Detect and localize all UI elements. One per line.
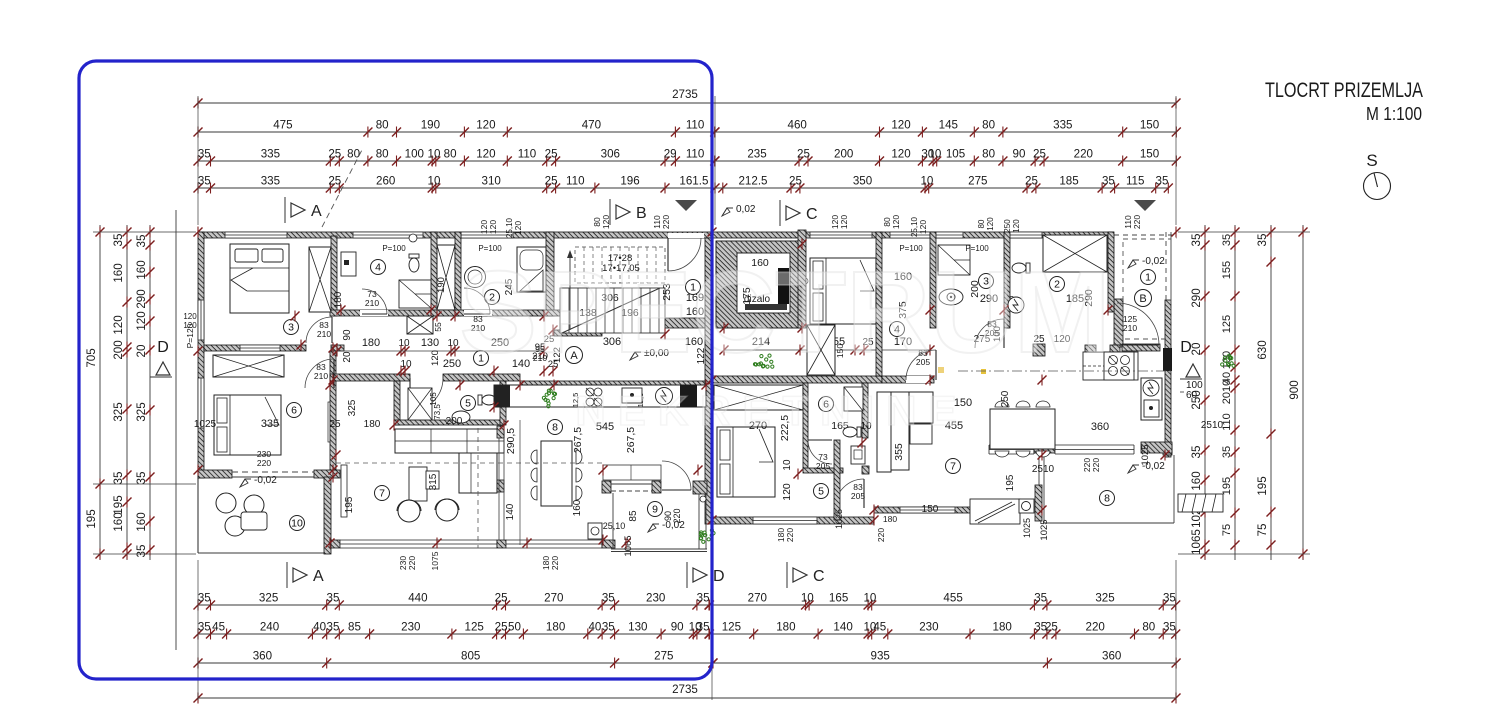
- porch9 room outline: [612, 493, 614, 549]
- section marker B top: [609, 199, 611, 225]
- svg-text:35: 35: [327, 621, 340, 634]
- svg-text:80: 80: [347, 148, 360, 161]
- party wall between units: [705, 238, 712, 524]
- wall shaft right: [455, 232, 461, 316]
- bath6R circle: [819, 397, 834, 412]
- svg-text:120: 120: [986, 217, 995, 231]
- svg-text:90: 90: [671, 621, 684, 634]
- svg-text:180: 180: [333, 291, 344, 308]
- svg-text:2735: 2735: [672, 88, 698, 101]
- svg-text:130: 130: [628, 621, 647, 634]
- svg-text:196: 196: [620, 175, 639, 188]
- svg-text:355: 355: [893, 443, 905, 461]
- wall stair bottom: [554, 330, 602, 336]
- svg-text:8: 8: [1104, 493, 1110, 505]
- dimension row C left: [198, 160, 715, 162]
- outer wall right: [1165, 300, 1171, 457]
- stair arrow: [569, 252, 571, 330]
- svg-text:250: 250: [443, 358, 461, 370]
- svg-text:120: 120: [601, 215, 611, 229]
- svg-text:325: 325: [259, 592, 278, 605]
- svg-text:25: 25: [1045, 621, 1058, 634]
- svg-text:220: 220: [876, 528, 886, 542]
- wall bed6/living vertical: [330, 351, 336, 470]
- room3 circle: [284, 320, 299, 335]
- svg-text:80: 80: [982, 119, 995, 132]
- wall room1R left: [1108, 232, 1114, 312]
- svg-text:325: 325: [135, 402, 148, 421]
- svg-text:B: B: [636, 205, 647, 222]
- svg-text:35: 35: [112, 234, 125, 247]
- elevator car: [778, 268, 789, 304]
- niche wall bed6 right: [328, 402, 333, 442]
- bottom dim row E left: [198, 604, 709, 606]
- svg-text:190: 190: [421, 119, 440, 132]
- svg-text:25,10: 25,10: [603, 521, 626, 531]
- svg-text:D: D: [1180, 339, 1192, 356]
- svg-text:1025: 1025: [194, 419, 217, 430]
- svg-text:110: 110: [518, 148, 536, 161]
- bed room6: [214, 395, 281, 455]
- svg-text:35: 35: [1034, 592, 1047, 605]
- svg-text:475: 475: [273, 119, 292, 132]
- sofa living7 U-shape: [395, 429, 504, 453]
- svg-text:35: 35: [1221, 446, 1233, 458]
- spot 0,02 top: [722, 208, 733, 216]
- svg-text:360: 360: [1091, 421, 1109, 433]
- bottom dim row E right: [709, 604, 1176, 606]
- svg-text:185: 185: [1059, 175, 1078, 188]
- svg-text:220: 220: [1086, 621, 1105, 634]
- svg-text:290: 290: [135, 289, 148, 308]
- svg-text:220: 220: [1132, 215, 1142, 229]
- svg-text:270: 270: [544, 592, 563, 605]
- svg-text:210: 210: [1123, 323, 1137, 333]
- svg-text:460: 460: [788, 119, 807, 132]
- svg-text:90: 90: [342, 329, 353, 341]
- svg-text:110: 110: [686, 148, 704, 161]
- water heater circle: [1008, 297, 1024, 313]
- svg-text:20: 20: [342, 351, 353, 363]
- dining chairs: [531, 450, 537, 464]
- wall pier right jog: [1035, 485, 1042, 521]
- svg-text:1025: 1025: [1039, 519, 1050, 540]
- wall bed3/bed6 horizontal: [204, 345, 306, 351]
- wc2R toilet: [1012, 263, 1030, 273]
- kitchen stove circle: [656, 388, 673, 405]
- bath3R sink: [939, 289, 963, 305]
- closet X room5R: [714, 385, 803, 410]
- svg-text:210: 210: [317, 329, 331, 339]
- svg-text:35: 35: [697, 592, 710, 605]
- kitchen right dark blocks: [1163, 348, 1172, 371]
- dashed section line: [322, 148, 363, 227]
- entry door opening right unit: [1114, 231, 1176, 239]
- svg-text:165: 165: [829, 592, 848, 605]
- hall1 bottom wall: [658, 318, 712, 328]
- filled triangle top right unit: [1134, 200, 1156, 211]
- kitchen burners: [586, 388, 594, 396]
- section marker A bottom: [286, 562, 288, 588]
- svg-text:35: 35: [112, 472, 125, 485]
- left grid extension line: [175, 210, 177, 650]
- bottom wall right unit b: [874, 507, 990, 513]
- svg-text:630: 630: [1256, 340, 1269, 359]
- svg-text:470: 470: [582, 119, 601, 132]
- watermark: [460, 247, 1111, 434]
- svg-text:125: 125: [1221, 315, 1233, 333]
- svg-text:-0,02: -0,02: [1142, 256, 1165, 267]
- svg-text:195: 195: [1005, 474, 1016, 491]
- svg-text:120: 120: [891, 119, 910, 132]
- wc5 shower: [408, 388, 432, 420]
- wardrobe X room6: [213, 355, 284, 377]
- right dim col 2: [1234, 225, 1236, 560]
- svg-text:25: 25: [545, 148, 558, 161]
- wall right of elevator: [798, 230, 806, 328]
- svg-text:290: 290: [1190, 288, 1203, 307]
- svg-text:335: 335: [1053, 119, 1072, 132]
- svg-text:C: C: [806, 206, 818, 223]
- svg-text:270: 270: [748, 592, 767, 605]
- wall wc5: [394, 381, 400, 425]
- porch9 door arc: [662, 461, 691, 490]
- room5R circle: [814, 484, 829, 499]
- dimension row C right: [715, 160, 1176, 162]
- kitchen fridge dark: [680, 385, 697, 407]
- room6 circle: [287, 403, 302, 418]
- svg-text:C: C: [813, 568, 825, 585]
- svg-text:306: 306: [601, 148, 620, 161]
- svg-text:440: 440: [408, 592, 427, 605]
- spot 402: [1128, 260, 1139, 268]
- window left wall P=120: [198, 300, 204, 340]
- svg-text:150: 150: [1140, 148, 1159, 161]
- svg-text:200: 200: [112, 340, 125, 359]
- svg-text:315: 315: [428, 473, 439, 490]
- xbox corridor shaft: [407, 316, 433, 334]
- svg-text:40: 40: [588, 621, 601, 634]
- bottom wall right unit a: [712, 517, 874, 524]
- room8R circle: [1100, 491, 1115, 506]
- coffee table: [409, 467, 427, 501]
- closet xbox left: [309, 247, 331, 312]
- svg-text:205: 205: [851, 491, 865, 501]
- svg-text:115: 115: [1126, 175, 1144, 188]
- svg-text:195: 195: [344, 496, 355, 513]
- svg-text:A: A: [311, 203, 322, 220]
- svg-text:35: 35: [697, 621, 710, 634]
- svg-text:180: 180: [362, 337, 380, 349]
- exterior steps right: [1178, 494, 1223, 512]
- room2R circle: [1050, 277, 1065, 292]
- extension lines right: [1178, 231, 1310, 233]
- svg-text:-0,02: -0,02: [1142, 461, 1165, 472]
- svg-text:325: 325: [1095, 592, 1114, 605]
- svg-text:120: 120: [891, 215, 901, 229]
- svg-text:10: 10: [428, 175, 441, 188]
- wc5 sink: [452, 411, 470, 423]
- svg-text:220: 220: [785, 528, 795, 542]
- room5R bed: [717, 427, 775, 497]
- svg-text:1025: 1025: [1022, 518, 1032, 538]
- wall bath4 right: [431, 232, 437, 316]
- svg-text:35: 35: [1156, 175, 1169, 188]
- svg-text:75: 75: [1221, 524, 1233, 536]
- plant porch a: [699, 529, 715, 544]
- svg-text:160: 160: [112, 263, 125, 282]
- bottom dim row total 2735: [198, 697, 1176, 699]
- svg-text:120: 120: [918, 220, 928, 234]
- section marker C bottom: [786, 562, 788, 588]
- svg-text:155: 155: [1221, 261, 1233, 279]
- svg-text:1065: 1065: [623, 535, 634, 556]
- corridor wall y310: [330, 310, 560, 316]
- bed room3: [230, 244, 289, 313]
- svg-text:25: 25: [789, 175, 802, 188]
- svg-text:90: 90: [1013, 148, 1026, 161]
- wall piers living/dining: [497, 426, 504, 438]
- svg-text:195: 195: [112, 495, 125, 514]
- svg-text:455: 455: [943, 592, 962, 605]
- bottom dim row F right: [709, 633, 1176, 635]
- svg-text:195: 195: [1256, 476, 1269, 495]
- svg-text:230: 230: [919, 621, 938, 634]
- svg-text:125: 125: [722, 621, 741, 634]
- svg-text:805: 805: [461, 650, 480, 663]
- room10 circle: [290, 516, 305, 531]
- svg-text:4: 4: [375, 262, 381, 274]
- bath4 shower: [399, 280, 431, 308]
- svg-text:210: 210: [314, 371, 328, 381]
- svg-text:85: 85: [628, 510, 639, 522]
- svg-text:10: 10: [863, 592, 876, 605]
- section marker D bottom: [686, 562, 688, 588]
- svg-text:120: 120: [839, 215, 849, 229]
- scattered junction ticks: [297, 341, 306, 350]
- svg-text:A: A: [313, 568, 324, 585]
- svg-text:20: 20: [135, 345, 148, 358]
- svg-text:80: 80: [977, 219, 986, 228]
- svg-text:55: 55: [433, 322, 443, 332]
- dining table: [541, 441, 572, 506]
- svg-text:120: 120: [781, 483, 793, 501]
- svg-text:1: 1: [1145, 272, 1151, 284]
- svg-text:220: 220: [550, 556, 560, 570]
- svg-text:325: 325: [347, 399, 358, 416]
- wall room5R right: [834, 440, 840, 520]
- extension lines top: [197, 96, 199, 225]
- svg-text:35: 35: [602, 592, 615, 605]
- svg-text:-0,02: -0,02: [254, 475, 277, 486]
- wall under elevator: [712, 376, 882, 383]
- wc5 toilet: [478, 395, 496, 405]
- svg-text:25: 25: [797, 148, 810, 161]
- svg-text:195: 195: [85, 509, 98, 528]
- bottom dim row F left: [198, 633, 709, 635]
- svg-text:80: 80: [982, 148, 995, 161]
- kitchen right counter col: [1141, 378, 1162, 420]
- svg-text:190: 190: [436, 277, 447, 293]
- entry door arc left unit: [668, 238, 701, 271]
- svg-text:35: 35: [198, 592, 211, 605]
- svg-text:1065: 1065: [1190, 529, 1203, 555]
- mid wall right unit east: [882, 376, 934, 383]
- svg-text:200: 200: [834, 148, 853, 161]
- bottom dim row G left: [198, 662, 713, 664]
- svg-text:120: 120: [112, 315, 125, 334]
- bath2 bathtub: [517, 247, 546, 292]
- svg-text:D: D: [713, 568, 725, 585]
- living chairs: [398, 500, 420, 522]
- svg-text:NEKRETNINE: NEKRETNINE: [575, 387, 968, 434]
- wc5 circle: [461, 396, 476, 411]
- entry door opening left unit: [668, 233, 704, 238]
- svg-text:25: 25: [1033, 148, 1046, 161]
- svg-text:120: 120: [891, 148, 910, 161]
- svg-text:45: 45: [873, 621, 886, 634]
- svg-text:7: 7: [379, 488, 385, 500]
- svg-text:10: 10: [782, 459, 793, 471]
- svg-text:250: 250: [1000, 390, 1011, 407]
- svg-text:25: 25: [328, 148, 341, 161]
- svg-text:9: 9: [652, 504, 658, 516]
- svg-text:230: 230: [646, 592, 665, 605]
- bath6R sink: [851, 446, 865, 464]
- svg-text:220: 220: [1091, 458, 1101, 472]
- dining table right: [990, 409, 1055, 449]
- dimension row D right: [715, 187, 1168, 189]
- svg-text:160: 160: [135, 260, 148, 279]
- svg-text:85: 85: [348, 621, 361, 634]
- svg-text:10: 10: [928, 148, 941, 161]
- elevator shaft: [716, 241, 802, 328]
- svg-text:120: 120: [488, 220, 498, 234]
- left dim col 705/195: [99, 225, 101, 560]
- svg-text:180: 180: [776, 621, 795, 634]
- svg-text:220: 220: [661, 215, 671, 229]
- svg-text:45: 45: [212, 621, 225, 634]
- svg-text:900: 900: [1288, 380, 1301, 399]
- svg-text:25: 25: [1025, 175, 1038, 188]
- svg-text:2735: 2735: [672, 683, 698, 696]
- svg-text:1075: 1075: [430, 551, 440, 570]
- shaft190 X: [437, 245, 455, 310]
- svg-text:10: 10: [400, 359, 412, 370]
- svg-text:250: 250: [1003, 219, 1012, 233]
- plant center: [753, 354, 774, 368]
- svg-text:325: 325: [112, 402, 125, 421]
- tv on left wall: [341, 465, 347, 517]
- stair upper flight dashed: [575, 247, 665, 283]
- svg-text:6: 6: [291, 405, 297, 417]
- svg-text:8: 8: [552, 422, 558, 434]
- node A circle: [566, 347, 583, 364]
- bath4 vanity: [341, 252, 356, 276]
- svg-text:235: 235: [747, 148, 766, 161]
- svg-text:110: 110: [686, 119, 704, 132]
- svg-text:35: 35: [602, 621, 615, 634]
- svg-text:120: 120: [513, 221, 523, 235]
- svg-text:120: 120: [183, 312, 197, 321]
- svg-text:5: 5: [465, 398, 471, 410]
- right dim col 3: [1270, 225, 1272, 560]
- svg-text:0,02: 0,02: [736, 204, 756, 215]
- svg-text:10: 10: [291, 518, 303, 530]
- terrace10 furniture: [216, 493, 236, 513]
- svg-text:M 1:100: M 1:100: [1366, 104, 1422, 124]
- svg-text:35: 35: [1256, 234, 1269, 247]
- bath2 sink: [465, 267, 486, 288]
- svg-text:35: 35: [198, 621, 211, 634]
- section marker A top: [284, 197, 286, 223]
- svg-text:10: 10: [801, 592, 814, 605]
- svg-text:100: 100: [405, 148, 424, 161]
- svg-text:25: 25: [328, 175, 341, 188]
- svg-text:260: 260: [376, 175, 395, 188]
- svg-text:25: 25: [495, 621, 508, 634]
- dimension row B right: [715, 131, 1176, 133]
- svg-text:230: 230: [401, 621, 420, 634]
- wall bed4R right: [876, 232, 882, 376]
- wall wc2R left: [1004, 232, 1010, 328]
- svg-text:120: 120: [430, 350, 441, 366]
- hall circle 1: [474, 351, 489, 366]
- svg-text:161.5: 161.5: [679, 175, 708, 188]
- svg-text:105: 105: [946, 148, 965, 161]
- svg-text:120: 120: [135, 311, 148, 330]
- svg-text:35: 35: [1102, 175, 1115, 188]
- svg-text:140: 140: [833, 621, 852, 634]
- svg-text:75: 75: [1256, 524, 1269, 537]
- svg-text:25: 25: [495, 592, 508, 605]
- svg-text:180: 180: [883, 514, 897, 524]
- svg-text:220: 220: [1074, 148, 1093, 161]
- svg-text:35: 35: [1221, 234, 1233, 246]
- kitchen counter R outline: [1083, 352, 1138, 380]
- right dim col 1: [1204, 225, 1206, 560]
- svg-text:335: 335: [261, 148, 280, 161]
- svg-text:25: 25: [329, 419, 341, 430]
- svg-text:S: S: [1366, 151, 1377, 170]
- svg-text:360: 360: [1102, 650, 1121, 663]
- svg-text:35: 35: [135, 472, 148, 485]
- svg-text:935: 935: [871, 650, 890, 663]
- svg-text:180: 180: [546, 621, 565, 634]
- svg-text:105: 105: [429, 392, 438, 406]
- svg-text:60: 60: [1186, 390, 1198, 401]
- svg-text:160: 160: [112, 512, 125, 531]
- svg-text:212.5: 212.5: [738, 175, 767, 188]
- svg-text:B: B: [1139, 293, 1146, 305]
- svg-text:P=100: P=100: [382, 244, 406, 253]
- svg-text:200: 200: [446, 416, 463, 427]
- svg-text:1025: 1025: [834, 509, 844, 529]
- yellow mark: [938, 367, 944, 373]
- svg-text:160: 160: [572, 499, 583, 516]
- svg-text:3: 3: [288, 322, 294, 334]
- bottom wall left terrace thin: [198, 552, 330, 554]
- window left wall bed6: [198, 378, 204, 428]
- svg-text:80: 80: [376, 119, 389, 132]
- svg-text:150: 150: [922, 504, 939, 515]
- svg-text:130: 130: [421, 337, 439, 349]
- svg-text:35: 35: [198, 175, 211, 188]
- extension lines left: [93, 231, 196, 233]
- corridor-living door: [410, 378, 443, 411]
- bath4 toilet: [409, 254, 419, 272]
- room1R circle B: [1141, 270, 1156, 285]
